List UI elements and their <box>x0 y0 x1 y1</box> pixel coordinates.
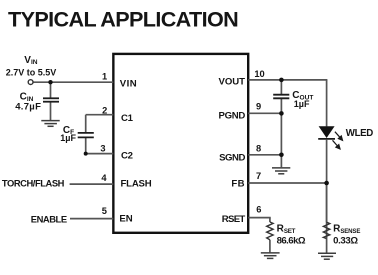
svg-text:VIN: VIN <box>24 55 38 66</box>
svg-text:1: 1 <box>102 72 107 82</box>
svg-text:4: 4 <box>101 173 107 183</box>
svg-text:5: 5 <box>102 206 107 216</box>
svg-text:1µF: 1µF <box>294 99 310 109</box>
svg-text:86.6kΩ: 86.6kΩ <box>277 236 306 247</box>
svg-text:10: 10 <box>254 69 264 79</box>
svg-text:VIN: VIN <box>120 78 137 89</box>
svg-text:8: 8 <box>256 144 261 154</box>
svg-text:TYPICAL APPLICATION: TYPICAL APPLICATION <box>8 7 238 32</box>
svg-text:4.7µF: 4.7µF <box>15 102 41 113</box>
svg-text:FLASH: FLASH <box>121 179 152 190</box>
svg-text:2.7V to 5.5V: 2.7V to 5.5V <box>6 68 57 78</box>
svg-text:3: 3 <box>100 144 105 154</box>
svg-text:C2: C2 <box>121 150 133 161</box>
svg-text:TORCH/FLASH: TORCH/FLASH <box>2 178 65 189</box>
svg-text:6: 6 <box>256 204 261 214</box>
svg-text:VOUT: VOUT <box>219 77 246 88</box>
svg-text:RSET: RSET <box>277 224 296 235</box>
svg-text:SGND: SGND <box>219 153 245 164</box>
svg-text:PGND: PGND <box>218 111 245 122</box>
svg-text:7: 7 <box>256 171 261 181</box>
svg-text:1µF: 1µF <box>60 133 76 143</box>
svg-text:EN: EN <box>119 214 132 225</box>
svg-text:2: 2 <box>102 105 107 115</box>
svg-text:FB: FB <box>231 178 245 189</box>
svg-text:RSET: RSET <box>222 214 246 225</box>
svg-text:ENABLE: ENABLE <box>31 213 67 224</box>
svg-text:0.33Ω: 0.33Ω <box>333 236 358 247</box>
svg-text:C1: C1 <box>121 113 134 124</box>
svg-text:RSENSE: RSENSE <box>333 224 360 235</box>
svg-text:9: 9 <box>256 102 261 112</box>
svg-text:WLED: WLED <box>346 128 373 139</box>
